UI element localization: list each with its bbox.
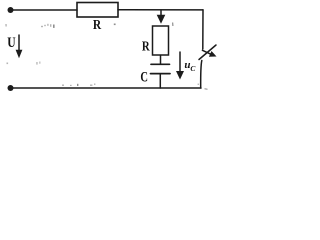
svg-text:U: U [7, 35, 16, 51]
svg-text:R: R [142, 39, 150, 54]
svg-text:C: C [190, 64, 196, 73]
svg-text:C: C [140, 70, 148, 86]
svg-text:R: R [93, 17, 102, 32]
